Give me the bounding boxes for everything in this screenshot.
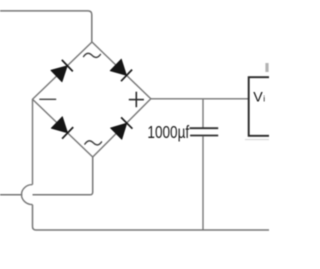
bridge rectifier diamond outline <box>33 42 151 157</box>
diode D2 top-right <box>110 59 132 81</box>
faint line below box <box>245 139 269 141</box>
wire hop (crossover arc) <box>22 185 33 205</box>
capacitor C1 plates <box>190 128 219 135</box>
AC tilde bottom <box>85 141 102 145</box>
AC tilde top <box>84 53 101 57</box>
wire bridge + output to regulator <box>151 98 249 100</box>
gray mark top-right <box>265 63 268 72</box>
wire AC input left segment <box>0 194 22 196</box>
wire hop bottom to bottom rail corner <box>33 205 270 230</box>
svg-text:1000µf: 1000µf <box>147 122 189 142</box>
wire AC input right segment to bridge bottom <box>33 157 93 195</box>
diode D3 bottom-left <box>51 117 73 139</box>
label Vi <box>253 89 265 105</box>
diode D1 top-left <box>51 60 73 82</box>
diode D4 bottom-right <box>111 117 133 139</box>
plus sign at right vertex <box>129 92 144 108</box>
svg-text:V: V <box>253 89 263 105</box>
wire top AC input <box>0 11 92 42</box>
wire capacitor bottom lead <box>202 136 204 230</box>
regulator box U1 <box>249 77 269 136</box>
wire capacitor top lead <box>202 99 204 128</box>
minus sign at left vertex <box>39 98 56 100</box>
wire left vertex down to hop <box>32 99 34 184</box>
svg-text:i: i <box>263 94 265 104</box>
